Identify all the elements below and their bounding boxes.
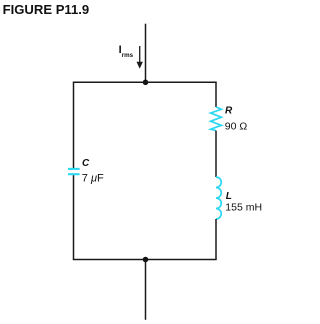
svg-text:rms: rms [122,52,134,59]
wire left branch lower [73,175,75,259]
svg-text:FIGURE P11.9: FIGURE P11.9 [3,2,90,17]
wire bottom rail [73,259,217,261]
label L [226,191,232,202]
value label 155 mH [225,202,262,214]
node top junction [143,80,149,86]
wire right branch middle [215,131,217,177]
label Irms [119,44,134,59]
inductor L [216,177,221,219]
value label 7 uF [82,173,104,185]
node bottom junction [143,257,149,263]
svg-text:7 μF: 7 μF [82,173,104,185]
wire top rail [73,81,217,83]
svg-text:90 Ω: 90 Ω [225,121,248,133]
wire bottom stub [145,260,147,320]
label C [82,158,90,169]
wire top stub [145,24,147,83]
svg-text:C: C [82,158,90,169]
value label 90 ohm [225,121,248,133]
svg-text:155 mH: 155 mH [225,202,262,214]
wire right branch lower [215,219,217,260]
svg-text:L: L [226,191,232,202]
current arrow Irms [137,46,143,69]
label R [225,105,233,116]
wire left branch upper [73,82,75,168]
figure title FIGURE P11.9 [3,2,90,17]
resistor R [211,107,222,131]
wire right branch upper [215,82,217,107]
capacitor C [68,169,80,174]
svg-text:R: R [225,105,233,116]
